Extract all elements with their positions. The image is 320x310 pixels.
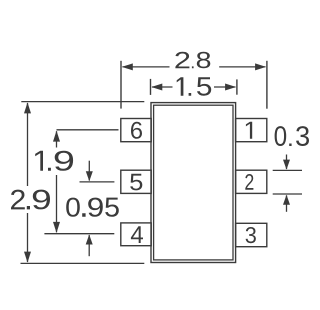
pin 3 label <box>246 227 256 243</box>
dimension 1.9 up arrow <box>53 131 60 142</box>
dimension 0.95 up arrow <box>86 235 93 245</box>
dimension 2.9 down arrow <box>24 252 31 263</box>
dimension 1.9 down arrow <box>53 222 60 233</box>
pin 4 label <box>131 226 143 243</box>
pin 6 label <box>131 122 142 139</box>
dimension 1.9 text <box>35 151 73 171</box>
dimension 1.5 right extension line <box>236 79 238 94</box>
dimension 0.95 down arrow <box>86 171 93 181</box>
dimension 2.8 left extension line <box>120 61 122 109</box>
dimension 0.3 upper reference line (pin 2 top) <box>273 169 302 171</box>
pin 6 box <box>121 119 151 142</box>
dimension 2.8 right extension line <box>266 61 268 109</box>
pin 4 box <box>121 223 151 246</box>
pin 5 box <box>121 170 151 193</box>
dimension 0.3 down arrow <box>283 160 290 170</box>
dimension 2.8 left arrow <box>122 63 133 70</box>
dimension 0.95 upper reference line (pin 5 center) <box>80 181 115 183</box>
dimension 1.5 left arrow <box>151 84 162 91</box>
dimension 2.9 text <box>11 190 50 210</box>
dimension 0.95 text <box>66 198 119 217</box>
dimension 1.9 bottom extension line (pin 4 center) <box>44 233 114 235</box>
dimension 2.8 text <box>175 52 210 68</box>
dimension 2.9 bottom extension line <box>21 262 145 264</box>
dimension 1.5 left extension line <box>150 79 152 95</box>
package body outer outline <box>151 103 236 263</box>
dimension 0.3 lower reference line (pin 2 bottom) <box>273 193 302 195</box>
pin 2 label <box>245 174 253 190</box>
package body inner outline <box>154 105 233 260</box>
dimension 1.5 text <box>177 77 212 95</box>
pin 1 label <box>246 122 252 139</box>
dimension 0.3 up arrow <box>283 195 290 205</box>
dimension 1.5 right arrow <box>225 84 236 91</box>
dimension 1.9 top extension line (pin 6 center) <box>57 129 119 131</box>
pin 1 box <box>236 119 267 142</box>
dimension 0.3 text <box>275 126 309 146</box>
pin 3 box <box>236 223 267 246</box>
pin 5 label <box>130 174 142 191</box>
dimension 2.9 top extension line <box>21 101 144 103</box>
dimension 2.8 right arrow <box>255 63 266 70</box>
dimension 2.9 up arrow <box>24 102 31 113</box>
pin 2 box <box>236 170 267 193</box>
